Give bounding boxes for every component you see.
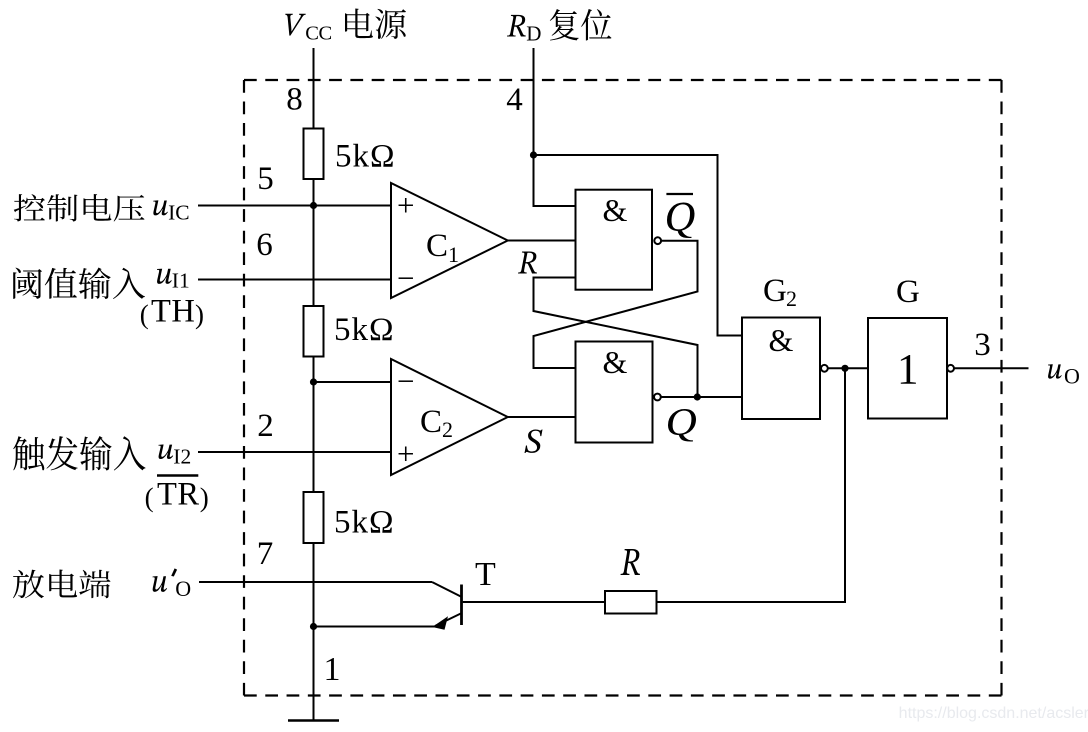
U2 output bubble (654, 394, 661, 401)
Qbar overline (666, 193, 693, 195)
svg-text:O: O (175, 576, 191, 601)
wire Q output to G2 (661, 396, 742, 398)
svg-text:T: T (475, 556, 496, 593)
svg-text:): ) (200, 483, 209, 513)
wire C2 minus input (314, 381, 392, 383)
svg-text:&: & (603, 344, 628, 380)
svg-text:CC: CC (305, 23, 331, 45)
wire R3-ground segment (313, 543, 315, 720)
svg-text:https://blog.csdn.net/acsler: https://blog.csdn.net/acsler (899, 705, 1088, 722)
svg-text:I1: I1 (172, 269, 190, 293)
svg-text:6: 6 (256, 227, 273, 263)
resistor R (605, 591, 657, 614)
svg-text:2: 2 (442, 417, 453, 442)
svg-text:1: 1 (897, 347, 919, 394)
RD fuwei label (550, 9, 612, 40)
G output bubble (947, 365, 954, 372)
Qbar label Q (667, 203, 695, 238)
u_O label u (1048, 364, 1062, 378)
svg-text:TH: TH (151, 294, 195, 330)
R label above resistor (621, 549, 640, 575)
svg-text:+: + (397, 188, 414, 223)
svg-text:2: 2 (786, 286, 797, 311)
wire R2-R3 segment (313, 356, 315, 493)
wire RD branch to G2 input (534, 155, 743, 336)
RD reset label R (507, 15, 526, 37)
VCC dianyuan label (345, 8, 406, 39)
IC package dashed border right (1000, 80, 1002, 696)
u'_O prime (171, 568, 177, 576)
NAND gate G2 (742, 318, 820, 420)
svg-text:&: & (603, 192, 628, 228)
svg-text:&: & (769, 322, 794, 358)
svg-text:(: ( (140, 299, 149, 329)
svg-text:1: 1 (448, 242, 459, 267)
pin 7 discharge wire (199, 581, 432, 583)
pin 3 output wire (954, 367, 1029, 369)
node Q junction (694, 393, 701, 400)
wire C2 output (508, 416, 576, 418)
resistor R3 5k (304, 492, 324, 543)
node G2 output junction (841, 365, 848, 372)
svg-text:C: C (426, 228, 448, 264)
wire Qbar feedback (534, 241, 698, 368)
buffer gate G (868, 318, 947, 419)
IC package dashed border left (243, 80, 245, 696)
svg-text:G: G (896, 274, 920, 310)
pin 5 control voltage wire (198, 205, 391, 207)
svg-text:+: + (397, 436, 414, 471)
svg-text:7: 7 (257, 536, 274, 572)
resistor R2 5k (304, 306, 324, 357)
wire R to transistor base (463, 601, 605, 603)
u'_O label u (153, 576, 167, 592)
svg-text:4: 4 (506, 82, 523, 118)
wire R1-R2 segment (313, 179, 315, 307)
yuzhi shuru label (13, 267, 145, 298)
NAND gate U2 (576, 342, 653, 443)
svg-text:IC: IC (168, 201, 190, 225)
u_I1 label u (157, 269, 172, 284)
resistor R1 5k (304, 129, 324, 180)
svg-text:1: 1 (324, 651, 341, 688)
comparator C1 (391, 183, 508, 298)
pin 4 wire RD rail (534, 48, 576, 206)
node S label (524, 429, 542, 453)
wire C1 output (508, 240, 576, 242)
comparator C2 (391, 359, 508, 475)
IC package dashed border bottom (244, 694, 1002, 696)
IC package dashed border top (244, 79, 1002, 81)
fangdianduan label (13, 570, 110, 599)
node emitter junction (310, 623, 317, 630)
svg-text:5kΩ: 5kΩ (335, 139, 396, 175)
wire G2 to G (828, 367, 868, 369)
node pin5 junction (310, 202, 317, 209)
svg-text:2: 2 (257, 408, 274, 444)
T emitter arrow (432, 616, 448, 629)
svg-text:−: − (397, 261, 414, 296)
wire Q feedback (534, 278, 698, 398)
svg-text:5kΩ: 5kΩ (334, 505, 395, 541)
U1 output bubble (654, 237, 661, 244)
wire G2 output down to R (657, 368, 846, 602)
node RD junction (530, 151, 537, 158)
svg-text:−: − (397, 364, 414, 399)
kongzhi dianya label (14, 194, 145, 221)
node pin6 divider junction (310, 378, 317, 385)
u_IC label u (153, 200, 168, 215)
svg-text:8: 8 (286, 82, 303, 118)
transistor T base bar (460, 585, 463, 626)
TR overline (157, 474, 198, 477)
svg-text:I2: I2 (173, 445, 191, 469)
svg-text:): ) (195, 299, 204, 329)
svg-text:(: ( (145, 483, 154, 513)
T emitter wire (435, 614, 461, 627)
ground (288, 719, 339, 722)
svg-text:O: O (1064, 364, 1080, 389)
svg-text:G: G (763, 273, 787, 309)
pin 8 wire VCC rail top (313, 48, 315, 130)
VCC label V (285, 14, 305, 36)
G2 output bubble (821, 365, 828, 372)
Q label (668, 409, 696, 442)
svg-text:3: 3 (974, 327, 991, 363)
pin 6 threshold wire (198, 279, 391, 281)
svg-text:D: D (526, 21, 541, 45)
u_I2 label u (158, 444, 173, 459)
svg-text:C: C (420, 404, 442, 440)
node R label (518, 251, 537, 273)
pin 2 trigger wire (198, 451, 391, 453)
T collector wire (432, 582, 461, 597)
svg-text:5kΩ: 5kΩ (334, 312, 395, 348)
svg-text:TR: TR (157, 477, 200, 513)
wire emitter to rail (314, 626, 436, 628)
NAND gate U1 (576, 190, 653, 290)
chufa shuru label (13, 436, 145, 471)
svg-text:5: 5 (257, 161, 274, 197)
